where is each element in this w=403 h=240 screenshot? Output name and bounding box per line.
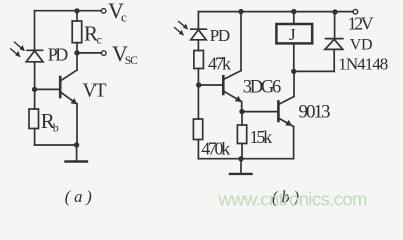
emitter arrowhead xyxy=(235,96,242,102)
svg-text:12V: 12V xyxy=(348,14,374,34)
emitter diagonal xyxy=(278,118,293,127)
resistor Rc xyxy=(72,21,82,43)
svg-text:PD: PD xyxy=(48,45,69,65)
node: Vsc junction (a) xyxy=(74,50,79,55)
ground (b) xyxy=(240,159,242,174)
transistor VT (a) xyxy=(60,53,77,145)
node: emitter junction (b) xyxy=(239,109,244,114)
node: collector/VD junction xyxy=(291,69,296,74)
svg-text:PD: PD xyxy=(210,26,230,45)
wire rail to relay xyxy=(293,12,295,24)
emitter arrowhead xyxy=(285,120,292,126)
wire emitter junction to 9013 base xyxy=(242,111,278,113)
node: ground junction (b) xyxy=(238,156,243,161)
collector diagonal xyxy=(278,97,294,105)
diode VD 1N4148 xyxy=(325,12,343,72)
light arrows into PD (a) xyxy=(11,42,24,56)
wire emitter vertical xyxy=(76,104,78,145)
light arrows into PD (b) xyxy=(175,22,188,35)
svg-text:J: J xyxy=(289,25,296,44)
node: rail/Rc junction (a) xyxy=(74,8,79,13)
emitter diagonal xyxy=(61,92,77,104)
wire left vertical (b) upper xyxy=(197,12,199,29)
node: rail/relay junction xyxy=(291,9,296,14)
emitter arrowhead xyxy=(71,98,78,105)
svg-text:470k: 470k xyxy=(201,139,230,159)
wire bottom (a) xyxy=(35,144,77,146)
svg-text:c: c xyxy=(121,10,127,25)
base bar xyxy=(59,77,62,97)
wire Rc lead lower xyxy=(76,43,78,53)
wire left vertical (a) upper xyxy=(34,11,36,50)
base bar xyxy=(222,76,225,94)
wire top rail (b) xyxy=(198,11,353,13)
transistor 3DG6 xyxy=(223,12,242,112)
wire 15k lead upper xyxy=(241,112,243,125)
svg-text:VT: VT xyxy=(83,81,107,102)
resistor Rb xyxy=(29,109,39,129)
svg-text:15k: 15k xyxy=(250,127,273,147)
wire 15k lead lower xyxy=(241,144,243,159)
wire collector vertical to rail xyxy=(240,12,242,71)
wire base (a) xyxy=(35,88,61,90)
resistor 47k xyxy=(194,51,204,69)
wire Rb lead lower xyxy=(34,129,36,146)
wire bottom (b) xyxy=(198,158,293,160)
svg-text:VD: VD xyxy=(350,37,373,54)
relay J xyxy=(276,24,312,43)
wire to Vsc terminal xyxy=(77,52,101,54)
wire Rc lead upper xyxy=(76,11,78,21)
node: rail/3DG6 collector (b) xyxy=(238,9,243,14)
wire 470k lead lower xyxy=(197,140,199,159)
wire top rail (a) xyxy=(35,10,102,12)
svg-text:3DG6: 3DG6 xyxy=(243,78,281,98)
wire emitter vertical xyxy=(293,127,295,159)
photodiode PD (a) xyxy=(26,50,43,89)
svg-text:( a ): ( a ) xyxy=(65,187,92,206)
svg-text:c: c xyxy=(97,33,102,47)
emitter diagonal xyxy=(223,91,241,102)
svg-text:b: b xyxy=(53,121,59,135)
wire base 3DG6 xyxy=(199,84,224,86)
svg-text:47k: 47k xyxy=(208,54,231,74)
photodiode PD (b) xyxy=(191,29,207,50)
wire relay to collector node xyxy=(293,43,295,71)
node: rail/VD junction xyxy=(332,9,337,14)
collector diagonal xyxy=(61,70,77,81)
resistor 15k xyxy=(237,125,246,144)
base bar xyxy=(277,102,280,122)
svg-text:9013: 9013 xyxy=(299,102,331,123)
node: base junction (b) xyxy=(196,82,201,87)
wire emitter to junction xyxy=(241,102,243,112)
svg-text:SC: SC xyxy=(125,55,138,67)
wire collector vertical xyxy=(76,53,78,70)
terminal Vsc xyxy=(101,51,106,56)
wire collector vertical xyxy=(293,71,295,96)
terminal 12V xyxy=(353,9,358,14)
svg-text:1N4148: 1N4148 xyxy=(338,55,388,74)
wire Rb lead upper xyxy=(34,89,36,109)
wire collector node to VD xyxy=(294,70,334,72)
transistor 9013 xyxy=(278,71,294,158)
node: PD/Rb/base junction (a) xyxy=(32,87,37,92)
collector diagonal xyxy=(223,71,241,80)
terminal Vc xyxy=(101,9,106,14)
resistor 470k xyxy=(193,119,202,140)
ground (a) xyxy=(76,145,78,161)
node: emitter/ground junction (a) xyxy=(74,142,79,147)
svg-text:www.cntronics.com: www.cntronics.com xyxy=(218,189,368,210)
wire 47k to junction xyxy=(197,69,199,120)
